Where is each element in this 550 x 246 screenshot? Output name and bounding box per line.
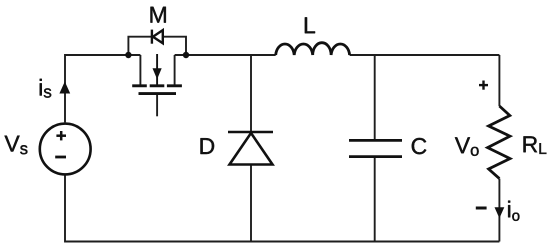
wire top-right segment	[350, 54, 500, 56]
wire diode-branch lower	[250, 164, 252, 242]
label D	[200, 138, 214, 154]
mosfet M body diode	[152, 30, 163, 44]
wire body-diode loop right	[163, 37, 186, 55]
resistor RL	[488, 106, 510, 179]
wire mosfet drain lead	[139, 55, 141, 85]
plus sign output	[479, 81, 488, 90]
junction dot left	[125, 52, 131, 58]
label is	[40, 79, 42, 96]
minus sign output	[476, 207, 487, 210]
label C	[412, 138, 427, 154]
mosfet M substrate arrow	[153, 54, 162, 85]
mosfet M gate lead	[156, 95, 158, 116]
junction dot right	[183, 52, 189, 58]
wire right-lower segment	[498, 179, 500, 242]
capacitor C	[349, 140, 402, 156]
inductor L	[276, 43, 350, 55]
mosfet M gate bar	[139, 92, 177, 95]
wire body-diode loop left	[128, 37, 152, 55]
wire top-left segment	[65, 55, 140, 122]
voltage source Vs	[40, 124, 91, 175]
label L	[305, 17, 315, 33]
wire capacitor-branch lower	[374, 157, 376, 242]
current arrow io	[495, 207, 505, 218]
wire top-middle segment	[175, 54, 276, 56]
label Vs	[5, 136, 20, 152]
minus sign inside Vs	[55, 156, 66, 159]
label M	[150, 7, 165, 23]
mosfet M channel bars	[132, 84, 182, 87]
wire capacitor-branch upper	[374, 55, 376, 140]
wire bottom segment	[65, 175, 499, 242]
label RL	[523, 136, 537, 152]
label io	[508, 201, 510, 218]
current arrow is	[59, 82, 70, 94]
wire diode-branch upper	[250, 55, 252, 132]
plus sign inside Vs	[56, 131, 66, 140]
wire mosfet source lead	[174, 55, 176, 85]
wire right-upper segment	[498, 55, 500, 106]
diode D	[228, 132, 273, 165]
label Vo	[455, 137, 470, 153]
